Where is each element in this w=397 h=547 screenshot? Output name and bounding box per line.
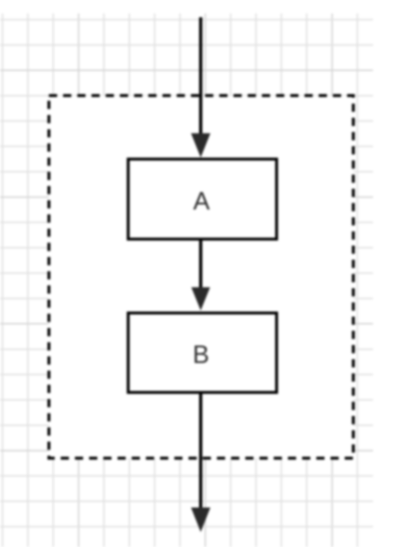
svg-text:B: B xyxy=(193,341,210,369)
svg-text:A: A xyxy=(193,187,210,215)
